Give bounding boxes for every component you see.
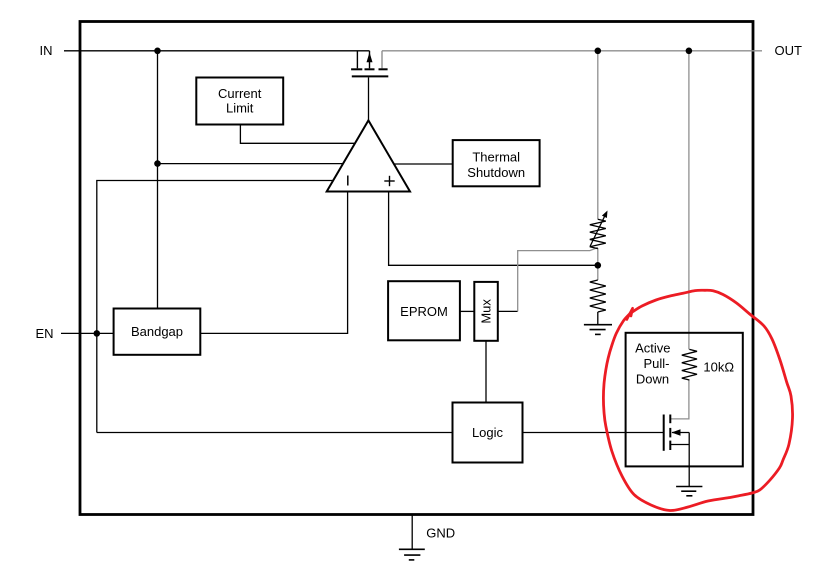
wire IN input rail — [64, 50, 370, 52]
wire Bandgap to op-amp inverting input — [200, 192, 347, 334]
svg-text:EN: EN — [35, 326, 53, 341]
svg-text:Down: Down — [636, 371, 669, 386]
wire EPROM to Mux — [460, 310, 474, 312]
wire GND pin stem — [411, 514, 413, 549]
block EPROM — [388, 281, 460, 340]
svg-text:Bandgap: Bandgap — [131, 324, 183, 339]
arrow on adjustable resistor — [590, 211, 608, 247]
wire from node to op-amp left edge (upper) — [158, 163, 344, 165]
red hand-drawn annotation circle — [603, 290, 792, 510]
junction node EN — [94, 330, 101, 337]
red annotation pen hook — [627, 308, 633, 319]
pass transistor Q1 (PMOS) — [351, 51, 388, 77]
junction node feedback divider — [595, 262, 602, 269]
wire vertical from IN node down to Bandgap — [157, 51, 159, 309]
op-amp U1 — [327, 120, 410, 191]
wire Mux right stub — [498, 310, 518, 312]
svg-text:Pull-: Pull- — [643, 356, 669, 371]
wire from EN branch to op-amp left edge (lower) — [97, 181, 333, 433]
block Mux — [474, 282, 498, 341]
op-amp minus label — [347, 176, 349, 186]
block Current Limit — [196, 78, 283, 125]
wire Logic to pull-down FET gate — [523, 432, 664, 434]
wire Mux to Logic — [485, 341, 487, 403]
wire EN input — [61, 332, 114, 334]
wire Current Limit to op-amp — [240, 125, 354, 144]
wire gray OUT to adjustable divider — [597, 51, 599, 220]
wire divider to ground — [597, 312, 599, 325]
resistor R 10k — [682, 349, 697, 380]
svg-text:Logic: Logic — [472, 425, 504, 440]
outer IC boundary box — [80, 22, 753, 515]
wire FET source to ground — [688, 433, 690, 487]
wire gray 10k to pull-down FET drain — [670, 380, 689, 419]
wire gray OUT to 10k pull-down resistor — [688, 51, 690, 350]
block Active Pull-Down — [626, 333, 743, 467]
op-amp plus label — [384, 176, 394, 186]
wire op-amp output to pass FET gate — [368, 77, 370, 120]
svg-text:EPROM: EPROM — [400, 304, 448, 319]
resistor divider bottom — [590, 280, 606, 312]
wire gray Mux tap to divider — [518, 248, 598, 312]
ground symbol GND pin — [399, 549, 425, 560]
resistor adjustable (divider top) — [590, 219, 606, 248]
svg-text:Shutdown: Shutdown — [467, 165, 525, 180]
svg-text:IN: IN — [40, 43, 53, 58]
svg-text:10kΩ: 10kΩ — [703, 359, 734, 374]
junction node on IN rail — [154, 48, 161, 55]
wire gray divider mid segment — [597, 248, 599, 280]
wire EN branch to Logic — [97, 432, 453, 434]
svg-text:OUT: OUT — [775, 43, 803, 58]
wire op-amp to Thermal Shutdown — [394, 163, 453, 165]
block Logic — [453, 403, 523, 463]
ground symbol below divider — [584, 325, 612, 335]
svg-text:Active: Active — [635, 340, 670, 355]
ground symbol below Active Pull-Down — [676, 487, 702, 496]
junction node on OUT rail at divider — [595, 48, 602, 55]
svg-text:Current: Current — [218, 86, 262, 101]
junction node op-amp upper input — [154, 160, 161, 167]
junction node on OUT rail at 10k — [686, 48, 693, 55]
block Thermal Shutdown — [453, 140, 540, 186]
pull-down transistor Q2 (NMOS) — [664, 415, 690, 451]
block Bandgap — [114, 309, 201, 355]
svg-text:Mux: Mux — [479, 299, 494, 324]
svg-text:Limit: Limit — [226, 101, 254, 116]
svg-text:GND: GND — [426, 525, 455, 540]
wire op-amp noninverting input to feedback node — [389, 192, 598, 266]
wire OUT rail (gray) — [382, 50, 762, 52]
svg-text:Thermal: Thermal — [472, 149, 520, 164]
